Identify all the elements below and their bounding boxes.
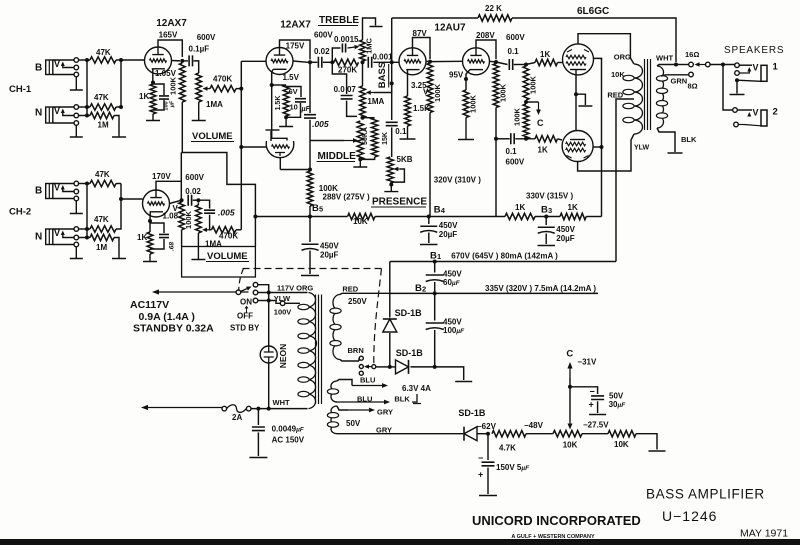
contact circle J2 CH-1 N tip [74, 105, 79, 110]
wire cathode to lower tube [575, 94, 577, 131]
svg-text:.68: .68 [169, 242, 176, 251]
svg-text:−48V: −48V [524, 421, 544, 430]
wire V2 cathode down [272, 69, 274, 85]
wire B2 to 100uF [434, 293, 436, 320]
fuse 2A [227, 405, 247, 413]
wire J3 CH-2 B ring arm [63, 190, 74, 192]
section first 12AX7 stage CH-1 [139, 18, 243, 153]
svg-text:175V: 175V [286, 42, 305, 51]
svg-text:BRN: BRN [348, 346, 364, 355]
svg-text:WHT: WHT [656, 54, 673, 63]
svg-text:1.5V: 1.5V [283, 73, 300, 82]
svg-text:600V: 600V [506, 158, 525, 167]
jack SPK2 [761, 110, 767, 126]
svg-text:270K: 270K [338, 66, 357, 75]
arrow C up [569, 369, 571, 379]
wire OT core 3 [650, 59, 652, 130]
svg-text:100K: 100K [433, 83, 442, 102]
winding 6.3V heater [331, 381, 337, 402]
junction node N ring CH-2 [85, 236, 89, 240]
wire elbow to middle wiper [310, 140, 344, 142]
junction node V1 plate [180, 59, 184, 63]
junction node B5 [308, 215, 312, 219]
svg-text:VOLUME: VOLUME [207, 251, 248, 262]
terminal jack1 ring [735, 71, 740, 76]
wire cathode to ground [576, 94, 585, 105]
svg-text:TREBLE: TREBLE [319, 15, 359, 26]
wire OT core 2 [647, 59, 649, 130]
wire J1 CH-1 B shunt row [53, 74, 74, 76]
contact circle J3 CH-2 B shunt [74, 196, 79, 201]
resistor 100K V4 plate load [493, 64, 499, 108]
junction node N tip CH-2 [85, 227, 89, 231]
selector arrow 16ohm [700, 64, 706, 66]
wire presence vertical mid [391, 62, 393, 120]
wire J4 tip node [79, 228, 90, 230]
ground bar line cap [249, 457, 267, 459]
heater BLK centre tap [412, 394, 421, 404]
svg-text:0.02: 0.02 [185, 187, 201, 196]
wire 47K stub B [116, 59, 121, 61]
svg-text:100K: 100K [169, 76, 178, 95]
wire bias cap bottom [487, 468, 489, 494]
svg-text:N: N [35, 108, 42, 119]
wire treble node down to bass pot [362, 62, 364, 86]
wire V4 cathode down [466, 70, 470, 90]
wire mixer bus vertical [240, 61, 242, 230]
wire line cap top [257, 409, 259, 425]
wire bias cap top [487, 434, 489, 460]
potentiometer 1MA VOLUME CH-2 [196, 205, 202, 233]
svg-text:335V (320V ) 7.5mA (14.2mA ): 335V (320V ) 7.5mA (14.2mA ) [485, 284, 596, 293]
junction node 0.1 junction [494, 137, 498, 141]
wire GRN tap [661, 75, 689, 76]
pentode V8 6L6GC lower [562, 131, 593, 162]
wire B3 cap top [545, 217, 547, 226]
junction node B/CH-1 bus [85, 58, 89, 62]
contact circle J4 CH-2 N ring [74, 235, 79, 240]
potentiometer 10K bias 1 [553, 431, 582, 437]
junction node after 0.02 [196, 198, 200, 202]
wire RED centre tap [616, 99, 634, 262]
jack J1 CH-1 B body [46, 60, 53, 75]
resistor 22K feedback [478, 15, 512, 21]
selector arrow [369, 366, 372, 368]
capacitor 20uF B4 [420, 225, 437, 227]
svg-text:SD-1B: SD-1B [395, 308, 423, 318]
junction node B4 [427, 215, 431, 219]
terminal jack2 ring [734, 122, 739, 127]
svg-text:288V (275V ): 288V (275V ) [323, 193, 370, 202]
wire wiper node up to V2 grid [236, 88, 241, 90]
junction node B CH-2 [85, 182, 89, 186]
wire node to 1K [526, 63, 535, 65]
resistor 1M CH-1 [90, 112, 114, 118]
svg-text:CH-2: CH-2 [9, 207, 31, 218]
svg-text:0.02: 0.02 [314, 47, 330, 56]
svg-text:170V: 170V [152, 172, 171, 181]
contact circle J3 CH-2 B ring [74, 189, 79, 194]
svg-text:B: B [430, 251, 437, 262]
svg-text:B: B [35, 63, 42, 74]
svg-text:12AX7: 12AX7 [156, 18, 187, 29]
wire 6V bracket cap top [286, 87, 301, 98]
resistor 270K [334, 59, 359, 65]
resistor 47K CH-1 N [90, 104, 116, 110]
svg-text:95V: 95V [449, 71, 464, 80]
wire WHT tap [657, 65, 676, 67]
winding OT secondary [657, 66, 664, 128]
svg-text:0.1µF: 0.1µF [189, 45, 210, 54]
tip arrow J3 CH-2 B [62, 189, 64, 192]
svg-text:60µF: 60µF [443, 278, 461, 287]
wire 100K feed top [309, 170, 311, 172]
bias GRY arrow [348, 409, 369, 411]
capacitor 0.1 presence [386, 122, 398, 125]
wire J3 tip node [79, 183, 90, 185]
wire 100K load down to B5 jog [181, 102, 183, 153]
svg-text:AC117V: AC117V [130, 299, 169, 311]
ground bar BLK [668, 152, 683, 154]
svg-text:V: V [753, 63, 759, 73]
wire J2 tip node [79, 106, 90, 108]
svg-text:47K: 47K [94, 93, 109, 102]
wire B2 bus [390, 292, 598, 294]
wire cathode cap bottom [153, 100, 164, 110]
contact circle J4 CH-2 N shunt [74, 242, 79, 247]
junction node bass pot bottom [361, 116, 365, 120]
junction node WHT [674, 63, 678, 67]
junction node V6 grid [239, 145, 243, 149]
svg-text:165V: 165V [159, 31, 178, 40]
section 6L6GC output stage [562, 6, 634, 217]
ground presence pot [384, 183, 398, 192]
wire 100K V4 continues to B4 [495, 139, 497, 217]
svg-text:PRESENCE: PRESENCE [372, 197, 427, 208]
svg-text:4: 4 [441, 206, 446, 215]
svg-text:8Ω: 8Ω [688, 82, 698, 91]
wire doubler to D2 [390, 366, 396, 368]
svg-text:1K: 1K [515, 203, 525, 212]
svg-text:µF: µF [170, 100, 176, 108]
wire V8 plate down to YLW [578, 134, 634, 171]
svg-text:16Ω: 16Ω [685, 50, 699, 59]
wire V2 plate-out right [293, 61, 308, 62]
wiper arrow middle pot [344, 140, 353, 142]
capacitor 0.0047 middle [341, 96, 353, 99]
wire .005 vertical [309, 62, 311, 113]
junction node B3 [544, 215, 548, 219]
capacitor 5uF 150V [482, 462, 495, 466]
wire contact STDBY jog [258, 300, 269, 302]
junction node grid CH-2 [119, 197, 123, 201]
wire cap to pot top [194, 61, 199, 73]
capacitor 60uF 450V [426, 274, 444, 276]
junction node line cap [256, 407, 260, 411]
junction node V2 cathode [270, 83, 274, 87]
underline TREBLE [318, 25, 358, 27]
wire V7 cathode down [575, 70, 577, 95]
section tone stack [304, 15, 427, 208]
fuse terminal right [246, 406, 251, 411]
capacitor 0.02 coupling CH-2 [188, 195, 191, 206]
tip arrow J4 CH-2 N [62, 234, 64, 237]
ground J2 CH-1 N [70, 125, 83, 137]
wire contact OFF to node [258, 292, 269, 294]
resistor 470K CH-1 wiper [210, 85, 236, 91]
junction node B1 [433, 260, 437, 264]
wire B5 jog [181, 153, 255, 247]
wire stdby to YLW tap [269, 301, 281, 304]
section CH-2 inputs [9, 170, 143, 259]
wire neon vertical bottom [268, 363, 270, 409]
wire V5 cath to res [149, 221, 151, 232]
resistor 47K CH-1 B [90, 57, 116, 63]
switch contact ON [253, 282, 258, 287]
junction node V3 plate [428, 60, 432, 64]
diode SD-1B upper [383, 319, 397, 332]
svg-text:600V: 600V [314, 31, 333, 40]
resistor 47K CH-2 N [90, 226, 116, 232]
wire 0.0047 top [332, 62, 346, 94]
wire C vertical [569, 378, 571, 421]
wire V8 screen right [593, 146, 602, 148]
svg-text:0.1: 0.1 [395, 127, 407, 136]
svg-text:47K: 47K [95, 170, 110, 179]
svg-text:5: 5 [319, 205, 323, 214]
contact circle J1 CH-1 B tip [74, 58, 79, 63]
jack J3 CH-2 B body [46, 184, 53, 199]
svg-text:1: 1 [437, 252, 441, 261]
switch contact STDBY [253, 298, 258, 303]
junction node V5 cathode [148, 219, 152, 223]
svg-text:470K: 470K [213, 75, 232, 84]
svg-text:SPEAKERS: SPEAKERS [724, 45, 784, 56]
wire J1 tip node [79, 59, 90, 61]
ground volume pot CH-1 [192, 102, 206, 121]
capacitor 0.0015 treble [342, 44, 345, 53]
wire jack2 sleeve [744, 125, 761, 126]
wire B5 bus [255, 216, 347, 218]
ground J4 CH-2 N [70, 247, 83, 259]
wire jack2 ring stub [738, 124, 744, 126]
junction node upper 6L6 grid RC [524, 63, 528, 67]
resistor 100K plate feed [307, 171, 313, 206]
wire PT core 2 [318, 295, 320, 405]
wire V4 plate to node [476, 40, 496, 59]
wire B5-B4 bus [375, 216, 505, 218]
junction node -62V [486, 432, 490, 436]
wire 0.02 to 270K node [323, 61, 332, 63]
wire 47K junction vertical [116, 60, 121, 107]
capacitor .005 CH-2 [204, 210, 215, 213]
svg-text:0.001: 0.001 [373, 53, 394, 62]
wire neon vertical top [268, 293, 270, 347]
resistor 100K lower bias [523, 104, 529, 139]
ground V3 cathode [400, 126, 416, 139]
capacitor 100uF 450V [426, 322, 444, 324]
section speakers [674, 45, 784, 127]
junction node B5 left [253, 215, 257, 219]
svg-text:UNICORD INCORPORATED: UNICORD INCORPORATED [472, 513, 641, 528]
wire 10uF bottom [286, 103, 300, 117]
wire B1 to 60uF [434, 262, 436, 273]
winding PT primary [309, 293, 317, 409]
wire V5 HT join [180, 153, 182, 201]
svg-text:RED: RED [607, 91, 623, 100]
tip arrow J2 CH-1 N [62, 112, 64, 115]
contact circle J1 CH-1 B ring [74, 65, 79, 70]
wire grid CH-1 to V1 [121, 59, 145, 61]
wire B4 cap bottom [428, 233, 430, 244]
wire 100K V4 down to 0.1 lower [495, 108, 497, 139]
capacitor 0.1 coupling lower [511, 133, 514, 144]
svg-text:+: + [589, 400, 594, 410]
svg-text:BLK: BLK [394, 395, 410, 404]
svg-text:1.5K: 1.5K [275, 96, 282, 111]
diode SD-1B bias [464, 427, 477, 441]
svg-text:1M: 1M [96, 243, 107, 252]
capacitor 0.001 bass [368, 57, 371, 68]
section CH-2 triode stages [137, 130, 294, 277]
wire presence wiper loop [392, 169, 405, 182]
wire J2 ring to 1M [79, 115, 90, 117]
wire V6 cathode down-right [279, 158, 281, 170]
wire presence cap to pot [391, 127, 393, 157]
wiper arrow presence pot [398, 168, 399, 170]
wire .005 to middle wiper arrow [309, 120, 311, 170]
junction node cap chain bottom [433, 365, 437, 369]
wire PT core 3 [321, 295, 323, 405]
ground J3 CH-2 B [70, 201, 83, 214]
section second 12AX7 stage and mixer bus [241, 20, 312, 230]
capacitor 0.1 coupling upper [509, 59, 512, 70]
svg-text:AC 150V: AC 150V [272, 436, 305, 445]
svg-text:0.0015: 0.0015 [334, 35, 359, 44]
wire pot top CH2 [197, 203, 199, 206]
resistor 100K upper bias [523, 66, 529, 100]
wire 1K to lower 6L6 grid [558, 139, 563, 140]
selector hole 3 [359, 371, 363, 375]
wire 0.0047 bottom [347, 101, 357, 117]
switch common [236, 290, 241, 295]
wire J2 CH-1 N tip row [53, 106, 74, 108]
arrow ON-OFF tick [245, 307, 248, 313]
ground J1 CH-1 B [70, 77, 83, 90]
wire screens vertical [601, 58, 603, 216]
wire 47K stub B CH-2 [116, 183, 121, 185]
wire pot bottom CH2 [197, 233, 199, 250]
junction node doubler AC [388, 365, 392, 369]
resistor 4.7K bias [492, 431, 526, 437]
svg-text:BLU: BLU [360, 376, 375, 385]
svg-text:SD-1B: SD-1B [396, 348, 424, 358]
svg-text:1K: 1K [139, 92, 149, 101]
wire 470K to mixer bus [236, 229, 241, 231]
svg-text:YLW: YLW [274, 294, 291, 303]
wire jack2 tip [737, 109, 752, 111]
junction node B2 [433, 291, 437, 295]
wire bass wiper to vertical [374, 83, 392, 92]
resistor 1M CH-2 [90, 234, 114, 240]
svg-text:BASS: BASS [377, 62, 388, 88]
junction node N tip [85, 105, 89, 109]
wire B3 cap bottom [545, 234, 547, 245]
svg-text:BASS AMPLIFIER: BASS AMPLIFIER [646, 487, 765, 502]
wire B5 cap bottom [309, 251, 311, 275]
capacitor 100uF V1 cathode [159, 96, 169, 99]
ground below 1M CH-2 [112, 256, 126, 259]
svg-text:6L6GC: 6L6GC [577, 6, 609, 17]
ground bar 10K2 [649, 450, 666, 452]
resistor 100K V4 cathode [463, 90, 469, 118]
wire mixer bus to V2 grid [241, 60, 266, 62]
svg-text:6V: 6V [289, 87, 298, 96]
svg-text:RED: RED [342, 284, 358, 293]
svg-text:ON: ON [240, 298, 252, 307]
triode V6 12AX7-b CH-2 (partial) [266, 141, 294, 158]
wire YLW tap to coil [285, 302, 300, 304]
svg-text:V: V [753, 108, 759, 118]
svg-text:0.0049µF: 0.0049µF [272, 425, 305, 434]
junction node jack1 gnd [735, 78, 739, 82]
svg-text:MIDDLE: MIDDLE [318, 151, 357, 162]
terminal jack1 tip [735, 63, 740, 68]
wire treble pot top to ground bar [363, 18, 376, 40]
section bias supply [458, 349, 665, 496]
junction node speaker bus [721, 63, 725, 67]
svg-text:1.5K: 1.5K [413, 104, 430, 113]
underline PRESENCE [371, 206, 426, 208]
svg-text:WHT: WHT [273, 398, 290, 407]
svg-text:320V (310V ): 320V (310V ) [434, 176, 481, 185]
ground bar jack1 [730, 94, 745, 96]
wire BRN bottom lead [340, 360, 359, 362]
section HV rectifier doubler [239, 262, 598, 382]
switch arm [241, 289, 247, 292]
junction node WHT neon [267, 407, 271, 411]
heater BLU arrow 2 [336, 401, 384, 403]
wire V2 cathode to V6 stem [272, 85, 287, 141]
wire B1 bus [390, 261, 616, 263]
wire 30uF bottom [597, 401, 599, 413]
wire B3 bus [535, 216, 560, 218]
wire bias tap arrow [526, 101, 539, 103]
ground V5 cathode [143, 254, 157, 262]
wire chain gnd [435, 367, 464, 380]
wire plate node to cap [182, 60, 188, 62]
selector plug [372, 365, 376, 369]
contact circle J1 CH-1 B shunt [74, 72, 79, 77]
wire J3 CH-2 B shunt row [53, 198, 74, 200]
svg-text:670V (645V ) 80mA (142mA ): 670V (645V ) 80mA (142mA ) [451, 252, 558, 261]
wire 1M to ground elbow [114, 116, 119, 135]
svg-text:10: 10 [290, 103, 298, 112]
junction node V6 cathode bus [308, 168, 312, 172]
svg-text:5KB: 5KB [397, 155, 413, 164]
resistor 1K B3-screens [560, 213, 586, 219]
svg-text:V: V [423, 88, 429, 97]
wire J4 CH-2 N ring arm [63, 236, 74, 238]
junction node treble pot bottom [361, 60, 365, 64]
wire 47K junction vertical CH-2 [116, 184, 121, 230]
wire B5 cap top [309, 217, 311, 243]
ground bar B3 cap [538, 245, 556, 247]
capacitor 20uF B3 [538, 226, 555, 228]
svg-text:C: C [566, 349, 573, 360]
terminal selector [706, 62, 711, 67]
ground below 1M CH-1 [112, 134, 126, 137]
